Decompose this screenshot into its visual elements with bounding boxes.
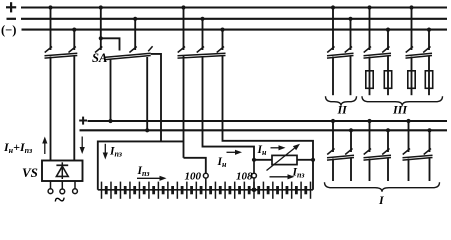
battery positive bus + — [88, 120, 448, 122]
svg-text:Iпз: Iпз — [137, 165, 150, 178]
fuse F3 — [408, 71, 415, 95]
junction dot on + bus — [331, 5, 335, 9]
wire QS2 pole C down to rheostat loop top — [223, 56, 314, 190]
battery negative bus - — [80, 129, 448, 131]
junction dot on - bus — [200, 17, 204, 21]
junction dot on (-) bus — [427, 28, 431, 32]
switch QS2 (3-pole battery selector) — [178, 8, 226, 59]
junction dot on - bus — [348, 17, 352, 21]
junction dot on (-) bus — [72, 28, 76, 32]
switch QS4 (feeder group II) — [327, 8, 354, 96]
fuse F2 — [384, 71, 391, 95]
junction dot battery line 108 — [252, 188, 257, 193]
junction dot on battery + bus — [331, 119, 335, 123]
wire battery + terminal loop — [98, 141, 184, 189]
up arrow charging current — [44, 144, 46, 155]
rectifier VS box — [42, 161, 83, 182]
svg-text:Iн: Iн — [257, 144, 267, 157]
svg-text:I: I — [378, 193, 385, 206]
junction dot rheostat right — [311, 158, 315, 162]
svg-text:Iн+Iпз: Iн+Iпз — [3, 140, 32, 155]
switch QS5 (feeder group III-1) — [364, 8, 392, 71]
switch QS9 (load group I-3) — [403, 121, 433, 181]
svg-text:Iпз: Iпз — [292, 167, 305, 180]
junction dot on (-) bus — [386, 28, 390, 32]
wire zigzag to 100-cell tap — [184, 158, 206, 174]
junction dot on - bus — [133, 17, 137, 21]
svg-text:100: 100 — [185, 171, 202, 183]
tap ring 108 — [252, 173, 257, 178]
down arrow Iпз in loop — [104, 144, 106, 153]
junction dot on + bus — [48, 5, 52, 9]
brace group II — [326, 96, 357, 106]
switch QS1 (rectifier feed) — [45, 8, 78, 161]
junction dot on battery + bus — [406, 119, 410, 123]
wire 108 tap — [253, 160, 255, 173]
bus bar + (top positive bus) — [21, 6, 447, 8]
svg-text:(−): (−) — [1, 23, 16, 37]
AC input terminals of VS — [48, 181, 77, 194]
junction dot on battery - bus — [427, 128, 431, 132]
junction dot on + bus — [409, 5, 413, 9]
junction dot on + bus — [181, 5, 185, 9]
junction dot on battery + bus — [367, 119, 371, 123]
wire SA blade end down to battery loop — [151, 54, 161, 141]
junction dot on battery - bus — [386, 128, 390, 132]
right arrow Iпз (rheostat) — [270, 176, 288, 178]
junction dot on (-) bus — [220, 28, 224, 32]
battery mid wire — [98, 189, 313, 191]
svg-text:II: II — [337, 103, 349, 117]
battery GB cells (short plates) — [106, 186, 306, 194]
brace group III — [362, 96, 443, 106]
rheostat R (regulating) — [254, 155, 313, 164]
diode inside VS — [56, 162, 68, 179]
battery GB cells (tall plates) — [102, 182, 311, 199]
svg-text:Iпз: Iпз — [109, 146, 122, 159]
right arrow Iпз (battery left) — [137, 177, 160, 179]
junction dot on + bus — [99, 5, 103, 9]
right arrow Iн (rheostat) — [271, 147, 279, 149]
svg-text:III: III — [392, 103, 408, 117]
wire SA blade to battery + bus — [110, 59, 112, 122]
tap ring 100 — [203, 173, 208, 178]
rheostat arrow — [267, 148, 295, 170]
wire QS2 pole A down to battery loop junction — [183, 56, 185, 158]
switch QS7 (load group I-1) — [327, 121, 354, 181]
svg-text:Iн: Iн — [217, 156, 227, 169]
label + of top bus — [6, 2, 16, 12]
fuse F1 — [366, 71, 373, 95]
down arrow at rectifier output — [81, 137, 83, 148]
switch SA (charge changeover) — [95, 8, 153, 60]
brace group I — [325, 182, 440, 192]
svg-text:~: ~ — [55, 189, 66, 206]
svg-text:VS: VS — [22, 165, 38, 180]
svg-text:SA: SA — [92, 51, 107, 65]
junction dot on + bus — [367, 5, 371, 9]
wire QS2 pole B down to Iн feeder — [203, 56, 255, 160]
junction dot rheostat left — [252, 158, 256, 162]
switch QS8 (load group I-2) — [364, 121, 392, 181]
label + of battery bus — [79, 117, 87, 125]
wire SA blade to battery - bus — [146, 57, 148, 130]
svg-text:108: 108 — [236, 171, 253, 183]
label - of middle bus — [7, 18, 17, 20]
bus bar (-) (third bus) — [22, 29, 448, 31]
right arrow Iн (feeder) — [227, 151, 236, 153]
bus bar - (middle bus) — [21, 18, 447, 20]
junction dot on battery - bus — [349, 128, 353, 132]
switch QS6 (feeder group III-2) — [406, 8, 433, 71]
fuse F4 — [425, 71, 432, 95]
